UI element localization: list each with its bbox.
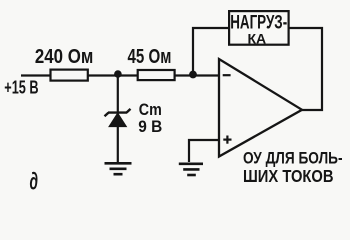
- svg-text:ОУ ДЛЯ БОЛЬ-: ОУ ДЛЯ БОЛЬ-: [243, 149, 343, 168]
- svg-text:НАГРУЗ-: НАГРУЗ-: [230, 12, 287, 34]
- svg-text:д: д: [30, 169, 39, 196]
- svg-text:45 Ом: 45 Ом: [128, 46, 172, 68]
- svg-text:ШИХ ТОКОВ: ШИХ ТОКОВ: [243, 166, 334, 186]
- svg-text:240 Ом: 240 Ом: [35, 46, 93, 68]
- svg-text:КА: КА: [248, 31, 267, 46]
- svg-text:+15 В: +15 В: [4, 76, 38, 97]
- svg-text:9 В: 9 В: [138, 117, 162, 136]
